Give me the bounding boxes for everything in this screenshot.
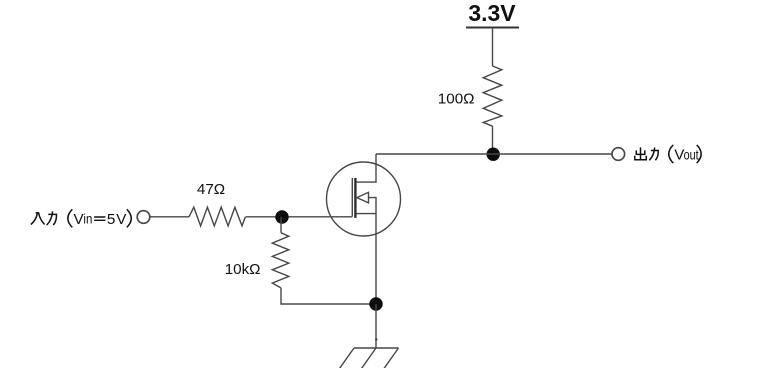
power rail 3.3V label: [468, 0, 516, 26]
label input 5V: [107, 211, 127, 228]
node S junction dot: [369, 297, 382, 310]
wire node S to ground: [375, 304, 377, 348]
label input kanji RYOKU (力): [47, 211, 57, 225]
wire R3 to node S: [281, 288, 376, 304]
svg-text:5V: 5V: [107, 211, 127, 228]
ground symbol: [340, 348, 399, 368]
svg-text:out: out: [684, 147, 700, 162]
label input open paren: [68, 209, 72, 227]
svg-text:in: in: [83, 212, 92, 227]
node OUT junction dot: [487, 148, 500, 161]
node G junction dot: [275, 210, 288, 223]
label 100ohm: [438, 91, 475, 108]
label input Vin: [74, 211, 93, 228]
resistor R3 10kohm: [272, 233, 289, 288]
output terminal circle: [612, 148, 625, 161]
label output kanji RYOKU (力): [649, 148, 658, 161]
Q1 body lead: [369, 198, 377, 214]
resistor R2 47ohm: [189, 207, 245, 226]
wire R2 to gate: [246, 216, 353, 218]
svg-text:10kΩ: 10kΩ: [225, 261, 261, 278]
wire input terminal to R2: [151, 216, 190, 218]
Q1 gate bar: [351, 178, 353, 217]
wire node G to R3: [280, 217, 282, 233]
svg-text:47Ω: 47Ω: [197, 181, 225, 198]
resistor R1 100ohm: [483, 66, 502, 126]
Q1 body arrow: [357, 192, 369, 203]
label 10kohm: [225, 261, 261, 278]
power rail bar: [466, 27, 519, 29]
Q1 source lead: [357, 213, 377, 215]
label input equals: [94, 217, 105, 220]
input terminal circle: [137, 211, 150, 224]
label output open paren: [669, 145, 673, 163]
Q1 drain lead: [357, 154, 377, 182]
Q1 channel bar: [354, 178, 356, 218]
label output kanji DE (出): [635, 147, 647, 159]
label input close paren: [127, 209, 131, 227]
transistor Q1 body circle: [327, 162, 401, 236]
label input kanji NYUU (入): [31, 213, 45, 225]
wire rail to R1: [492, 28, 494, 67]
wire drain to output terminal: [376, 153, 612, 155]
wire R1 to node OUT: [492, 126, 494, 154]
svg-text:3.3V: 3.3V: [468, 0, 516, 26]
wire source down to node S: [375, 214, 377, 304]
label output Vout: [674, 147, 699, 164]
label output close paren: [697, 145, 701, 163]
svg-text:100Ω: 100Ω: [438, 91, 475, 108]
label 47ohm: [197, 181, 225, 198]
